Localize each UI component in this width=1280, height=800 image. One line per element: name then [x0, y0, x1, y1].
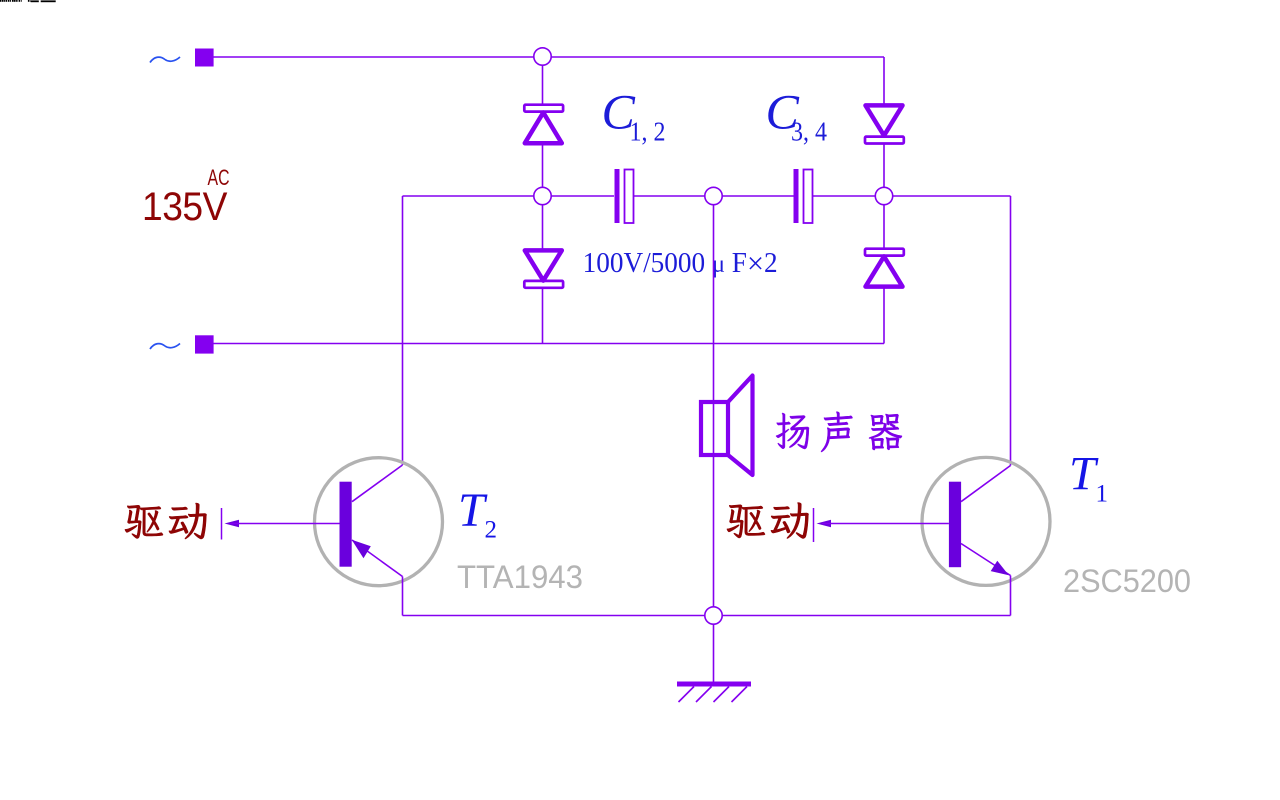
label speaker chinese qi	[869, 414, 902, 450]
diode D4 triangle	[866, 256, 903, 286]
T2 base wire	[230, 523, 340, 525]
transistor T1 collector lead	[961, 466, 1011, 502]
capacitor C3,4 plate positive	[804, 170, 813, 224]
T2 base arrow	[225, 520, 240, 527]
transistor T1 emitter arrow	[991, 561, 1009, 576]
transistor T2 emitter lead	[352, 540, 403, 577]
diode D2 triangle	[525, 250, 562, 280]
wire node A to D2	[542, 205, 544, 251]
ground hatch 1	[679, 687, 695, 703]
wire mid branch vertical to speaker	[713, 196, 715, 616]
ground hatch 4	[732, 687, 748, 703]
svg-text:AC: AC	[208, 165, 230, 190]
node D bottom rail	[705, 607, 722, 624]
node A mid rail left	[534, 187, 551, 204]
transistor T1 emitter lead	[961, 544, 1011, 576]
svg-text:TTA1943: TTA1943	[457, 559, 583, 595]
svg-text:T: T	[458, 484, 488, 537]
node C mid rail right	[875, 187, 892, 204]
clipped black text fragments top-left	[0, 0, 56, 2]
diode D1 triangle	[525, 113, 562, 144]
ground hatch 2	[696, 687, 712, 703]
transistor T2 emitter arrow	[352, 540, 371, 559]
wire D2 to lower rail	[542, 287, 544, 344]
capacitor C1,2 plate positive	[625, 170, 634, 224]
wire lower AC rail	[214, 343, 885, 345]
svg-text:1: 1	[1096, 481, 1109, 508]
transistor T2 circle	[315, 458, 443, 586]
wire T2 emitter down	[402, 577, 404, 616]
T1 base wire	[822, 523, 949, 525]
speaker horn	[728, 376, 753, 476]
svg-text:100V/5000 μ F×2: 100V/5000 μ F×2	[583, 246, 778, 281]
ground bar	[677, 682, 751, 687]
transistor T2 collector lead	[352, 465, 403, 502]
wire mid rail left segment	[403, 195, 615, 197]
label speaker chinese yang	[776, 413, 809, 449]
wire node C to D4	[883, 205, 885, 250]
wire top rail	[214, 56, 885, 58]
tilde AC symbol upper	[150, 57, 180, 63]
tilde AC symbol lower	[150, 344, 180, 350]
wire T1 emitter down	[1010, 576, 1012, 616]
terminal square lower	[195, 335, 214, 353]
svg-text:1, 2: 1, 2	[630, 117, 666, 147]
diode D3 cathode bar	[865, 137, 904, 144]
node B mid rail center	[705, 187, 722, 204]
wire mid rail right segment	[813, 195, 1011, 197]
diode D2 cathode bar	[524, 281, 563, 288]
wire ground stem	[713, 624, 715, 682]
wire top rail down to D3	[883, 57, 885, 105]
label speaker chinese sheng	[821, 412, 853, 452]
transistor T1 base bar	[949, 482, 961, 568]
wire D4 to lower rail	[883, 287, 885, 344]
wire top rail down to D1	[542, 65, 544, 105]
wire bottom rail	[403, 615, 1011, 617]
label drive left chinese qu dong	[125, 503, 207, 539]
terminal square upper	[195, 49, 214, 67]
capacitor C1,2 plate negative	[615, 169, 620, 223]
transistor T2 base bar	[340, 482, 352, 567]
svg-text:T: T	[1069, 448, 1099, 501]
wire mid rail center segment	[634, 195, 794, 197]
T2 base terminal tick	[221, 508, 223, 540]
speaker box	[701, 402, 728, 455]
node top rail	[534, 48, 551, 65]
svg-text:3, 4: 3, 4	[791, 117, 827, 147]
wire D3 to node C	[883, 143, 885, 188]
diode D3 triangle	[866, 105, 903, 135]
svg-text:135V: 135V	[142, 185, 228, 229]
svg-text:2: 2	[485, 517, 498, 544]
T1 base arrow	[817, 520, 832, 527]
T1 base terminal tick	[813, 508, 815, 542]
diode D1 cathode bar	[524, 105, 563, 112]
wire D1 to node A	[542, 144, 544, 188]
wire right branch vertical	[1010, 196, 1012, 466]
wire left branch vertical	[402, 196, 404, 465]
transistor T1 circle	[922, 457, 1050, 585]
svg-text:2SC5200: 2SC5200	[1063, 563, 1191, 599]
ground hatch 3	[714, 687, 730, 703]
diode D4 cathode bar	[865, 249, 904, 256]
label drive right chinese qu dong	[727, 503, 809, 539]
capacitor C3,4 plate negative	[794, 169, 799, 223]
